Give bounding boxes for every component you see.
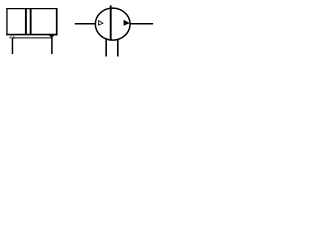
air-oil reservoir body left edge — [6, 8, 8, 35]
pneumatic flow triangle (open, pointing up) — [9, 35, 16, 39]
right port wire out of converter — [130, 23, 153, 25]
air port wire (left stem) — [11, 38, 13, 54]
converter separator bar / top port — [110, 5, 112, 40]
air-oil reservoir body top edge — [6, 8, 57, 10]
oil port wire (right stem) — [51, 38, 53, 54]
air-oil reservoir body right edge — [56, 8, 58, 35]
bottom port wire (left) — [105, 39, 107, 57]
air-oil converter circle — [95, 8, 130, 40]
reservoir bottom manifold wire — [12, 37, 53, 39]
bottom port wire (right) — [117, 39, 119, 56]
pneumatic arrow (open, pointing right) — [98, 20, 104, 26]
reservoir inner baffle line 2 — [30, 9, 32, 35]
left port wire into converter — [75, 23, 96, 25]
hydraulic arrow (filled, pointing right) — [124, 20, 130, 26]
hydraulic flow triangle (filled, pointing down) — [48, 35, 55, 38]
air-oil reservoir body bottom edge — [6, 34, 57, 36]
reservoir inner baffle line 1 — [25, 9, 27, 35]
